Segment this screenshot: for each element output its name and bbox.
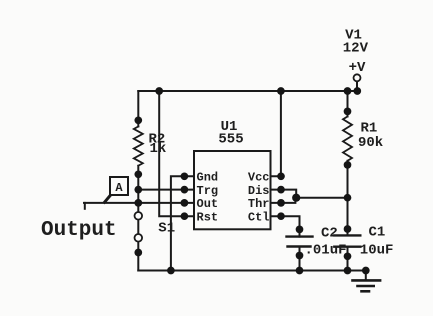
svg-text:A: A <box>115 181 123 195</box>
svg-text:555: 555 <box>218 131 243 147</box>
svg-text:Ctl: Ctl <box>248 211 270 225</box>
svg-text:90k: 90k <box>358 135 383 151</box>
svg-text:10uF: 10uF <box>360 243 394 259</box>
svg-text:.01uF: .01uF <box>305 243 347 259</box>
svg-text:C2: C2 <box>321 226 338 242</box>
svg-text:Thr: Thr <box>248 197 270 211</box>
svg-text:C1: C1 <box>369 225 386 241</box>
svg-text:1k: 1k <box>150 141 167 157</box>
svg-text:Out: Out <box>197 197 219 211</box>
svg-text:+V: +V <box>349 60 366 76</box>
svg-text:Vcc: Vcc <box>248 171 270 185</box>
svg-text:Gnd: Gnd <box>197 171 219 185</box>
svg-text:Rst: Rst <box>197 211 219 225</box>
svg-text:Dis: Dis <box>248 184 270 198</box>
svg-text:S1: S1 <box>158 221 175 237</box>
svg-text:Output: Output <box>41 219 117 242</box>
svg-text:12V: 12V <box>343 41 369 57</box>
svg-text:Trg: Trg <box>197 184 219 198</box>
